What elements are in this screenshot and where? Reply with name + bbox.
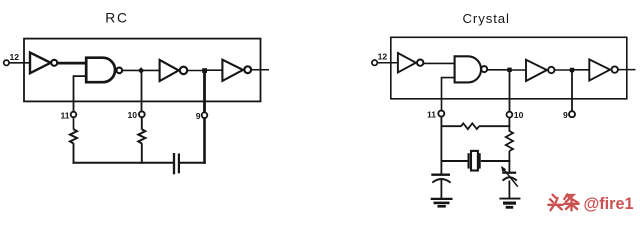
- pin 10 (left): [128, 110, 145, 120]
- svg-text:Crystal: Crystal: [463, 11, 510, 26]
- wire node A to inverter U1C: [143, 69, 160, 71]
- svg-text:10: 10: [514, 110, 524, 120]
- svg-text:10: 10: [128, 110, 138, 120]
- node junction B: [202, 68, 207, 73]
- wire node D to inverter U2D: [572, 69, 590, 71]
- wire node B down to pin 9: [203, 71, 206, 113]
- wire node A down to pin 10: [141, 71, 143, 112]
- wire inverter to NAND (right): [424, 62, 455, 64]
- pin 11 (left): [61, 110, 77, 120]
- bottom rail wire right of capacitor: [179, 162, 206, 164]
- crystal Y1: [469, 151, 480, 171]
- wire node C to inverter U2C: [510, 69, 527, 71]
- IC outline box right: [391, 37, 627, 99]
- wire NAND output to node: [123, 69, 140, 71]
- wire pin 11 down to capacitor C2: [440, 117, 442, 174]
- svg-text:@fire1: @fire1: [584, 195, 634, 213]
- wire pin 10 to resistor Rs: [508, 118, 510, 132]
- wire U1C to node B: [187, 70, 204, 72]
- inverter U1D: [222, 60, 251, 81]
- svg-text:9: 9: [563, 110, 568, 120]
- wire node B to inverter U1D: [207, 69, 223, 71]
- IC outline box left: [24, 39, 261, 102]
- wire pin 9 down: [203, 118, 206, 164]
- ground (left of right circuit): [431, 199, 453, 206]
- input terminal pin 12 (left): [4, 52, 20, 66]
- wire input to inverter (right): [377, 62, 398, 64]
- capacitor C3 (trimmer, curved plate): [502, 173, 517, 181]
- pin 9 (left): [196, 111, 208, 121]
- svg-text:RC: RC: [105, 11, 129, 26]
- inverter U2C: [526, 60, 555, 81]
- inverter U2D: [589, 59, 618, 80]
- wire C3 to ground: [508, 181, 510, 199]
- resistor Rs: [506, 131, 513, 151]
- watermark 头条@fire1: [548, 194, 579, 210]
- wire feedback rail to resistor Rf: [441, 125, 461, 127]
- NAND gate U2B: [455, 56, 488, 82]
- bottom rail wire left of capacitor: [73, 162, 175, 164]
- ground (right): [499, 199, 520, 208]
- inverter U1A: [30, 53, 57, 74]
- svg-text:12: 12: [378, 52, 388, 62]
- capacitor C2 (fixed, curved plate): [431, 175, 450, 183]
- wire NAND input 2 stub (right): [442, 78, 455, 111]
- wire R1 to bottom rail: [73, 143, 75, 164]
- output wire left circuit: [252, 69, 270, 71]
- wire NAND input 2 stub: [74, 76, 87, 112]
- resistor Rf: [461, 123, 479, 129]
- pin 9 (right): [563, 110, 575, 120]
- inverter U1C: [160, 60, 188, 81]
- output wire right circuit: [618, 69, 635, 71]
- node junction A: [138, 67, 145, 74]
- wire node C down to pin 10: [509, 70, 511, 112]
- wire R2 to bottom rail: [141, 143, 143, 164]
- input terminal pin 12 (right): [372, 52, 387, 66]
- wire Rs to crystal rail and trimmer C3: [508, 151, 510, 172]
- wire input to inverter: [9, 62, 30, 64]
- wire node D down to pin 9: [571, 70, 573, 111]
- svg-text:11: 11: [427, 109, 436, 119]
- wire Rf to pin 10 line: [479, 125, 510, 127]
- svg-text:9: 9: [196, 111, 201, 121]
- node junction D: [570, 68, 574, 72]
- capacitor C1: [174, 153, 179, 174]
- trimmer arrow: [501, 166, 518, 187]
- wire inverter to NAND input 1: [58, 62, 86, 65]
- wire crystal rail left: [441, 160, 468, 162]
- wire pin 11 to resistor R1: [73, 117, 75, 129]
- NAND gate U1B: [86, 58, 122, 82]
- node junction C: [507, 68, 511, 72]
- wire pin 10 to resistor R2: [141, 117, 143, 129]
- wire U2C to node D: [555, 69, 572, 71]
- pin 11 (right): [427, 109, 444, 119]
- inverter U2A: [398, 53, 424, 72]
- svg-text:12: 12: [10, 52, 20, 62]
- resistor R1: [70, 129, 77, 143]
- resistor R2: [138, 129, 145, 143]
- wire C2 to ground: [440, 179, 442, 198]
- wire NAND output to node C: [487, 69, 509, 71]
- pin 10 (right): [507, 110, 524, 120]
- wire crystal rail right: [481, 160, 511, 162]
- svg-text:11: 11: [61, 110, 70, 120]
